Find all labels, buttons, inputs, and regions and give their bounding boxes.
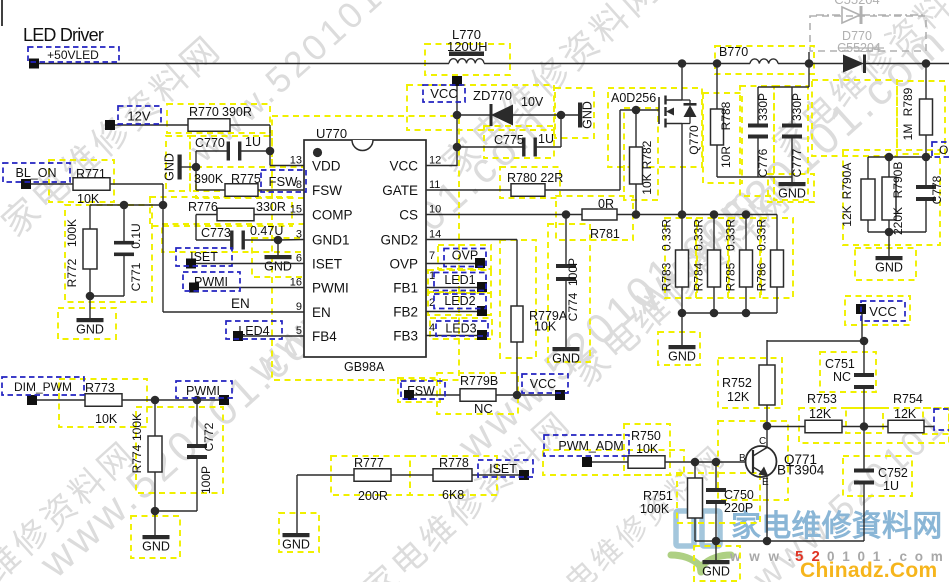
svg-text:LED Driver: LED Driver xyxy=(23,25,104,45)
svg-text:1U: 1U xyxy=(245,135,261,149)
svg-text:VCC: VCC xyxy=(530,377,556,391)
svg-text:10K: 10K xyxy=(77,192,100,206)
svg-text:R776: R776 xyxy=(188,200,218,214)
svg-text:R750: R750 xyxy=(631,429,661,443)
svg-text:GND: GND xyxy=(581,101,595,129)
svg-text:R790B: R790B xyxy=(891,162,905,199)
svg-text:GND1: GND1 xyxy=(312,233,350,248)
svg-text:0.33R: 0.33R xyxy=(692,219,706,251)
svg-text:1U: 1U xyxy=(538,132,554,146)
svg-text:390R: 390R xyxy=(222,105,252,119)
svg-text:GND: GND xyxy=(702,565,730,579)
svg-text:E: E xyxy=(762,477,769,488)
svg-text:7: 7 xyxy=(429,250,435,262)
svg-text:R751: R751 xyxy=(643,489,673,503)
svg-text:VCC: VCC xyxy=(869,304,896,319)
svg-text:GND2: GND2 xyxy=(380,233,418,248)
svg-text:GND: GND xyxy=(875,261,903,275)
svg-text:C752: C752 xyxy=(878,466,908,480)
svg-text:R778: R778 xyxy=(439,456,469,470)
svg-text:R779B: R779B xyxy=(460,374,498,388)
svg-text:0R: 0R xyxy=(598,197,614,211)
svg-text:3: 3 xyxy=(296,229,302,241)
svg-text:R783: R783 xyxy=(660,262,674,291)
svg-text:220K: 220K xyxy=(891,207,905,235)
svg-text:家电维修資料网: 家电维修資料网 xyxy=(731,510,942,543)
svg-text:100K: 100K xyxy=(640,502,670,516)
svg-text:A0D256: A0D256 xyxy=(611,91,656,105)
svg-text:10K: 10K xyxy=(95,412,118,426)
svg-text:B770: B770 xyxy=(719,45,748,59)
svg-text:GND: GND xyxy=(282,538,310,552)
svg-text:100K: 100K xyxy=(65,219,79,247)
svg-text:12K: 12K xyxy=(894,407,917,421)
svg-text:GND: GND xyxy=(76,323,104,337)
svg-text:330P: 330P xyxy=(790,93,804,121)
svg-text:COMP: COMP xyxy=(312,208,353,223)
svg-text:C774: C774 xyxy=(566,292,580,321)
svg-text:PWMI: PWMI xyxy=(194,275,228,289)
svg-text:DIM_PWM: DIM_PWM xyxy=(14,380,72,394)
svg-text:10K: 10K xyxy=(640,173,654,194)
svg-text:330R: 330R xyxy=(256,200,286,214)
svg-text:LED1: LED1 xyxy=(444,273,475,287)
svg-text:16: 16 xyxy=(290,277,302,289)
svg-text:10: 10 xyxy=(429,204,441,216)
svg-text:GND: GND xyxy=(142,540,170,554)
svg-text:R773: R773 xyxy=(85,381,115,395)
svg-text:O: O xyxy=(939,143,948,157)
svg-text:FSW: FSW xyxy=(269,174,299,189)
svg-text:0.33R: 0.33R xyxy=(724,219,738,251)
svg-text:R790A: R790A xyxy=(840,163,854,200)
svg-text:FB1: FB1 xyxy=(393,281,418,296)
svg-text:6: 6 xyxy=(296,253,302,265)
svg-text:ISET: ISET xyxy=(190,250,218,264)
svg-text:9: 9 xyxy=(296,301,302,313)
svg-text:C778: C778 xyxy=(930,175,944,204)
svg-text:0.33R: 0.33R xyxy=(660,219,674,251)
svg-text:C55204: C55204 xyxy=(834,0,880,7)
svg-text:NC: NC xyxy=(474,401,493,416)
svg-text:FB2: FB2 xyxy=(393,305,418,320)
svg-text:13: 13 xyxy=(290,155,302,167)
svg-text:OVP: OVP xyxy=(452,249,478,263)
svg-text:10K: 10K xyxy=(636,442,659,456)
svg-text:220P: 220P xyxy=(724,501,753,515)
svg-text:200R: 200R xyxy=(358,489,388,503)
svg-text:C773: C773 xyxy=(201,226,231,240)
svg-text:GND: GND xyxy=(778,187,806,201)
svg-text:PWM_ADM: PWM_ADM xyxy=(558,439,623,453)
svg-text:12K: 12K xyxy=(809,407,832,421)
svg-text:VDD: VDD xyxy=(312,159,341,174)
svg-text:10V: 10V xyxy=(521,95,544,109)
svg-text:100K: 100K xyxy=(130,413,144,441)
svg-text:LED4: LED4 xyxy=(238,324,269,338)
svg-text:12V: 12V xyxy=(127,109,150,124)
svg-text:Q770: Q770 xyxy=(687,125,701,155)
svg-text:LED3: LED3 xyxy=(445,322,476,336)
svg-text:11: 11 xyxy=(429,179,440,191)
svg-text:R753: R753 xyxy=(807,392,837,406)
svg-text:U770: U770 xyxy=(316,126,347,141)
svg-text:5: 5 xyxy=(296,325,302,337)
svg-text:R789: R789 xyxy=(901,87,915,116)
svg-text:R784: R784 xyxy=(692,262,706,291)
svg-text:390K: 390K xyxy=(194,172,224,186)
svg-text:120UH: 120UH xyxy=(447,39,487,54)
svg-text:R780 22R: R780 22R xyxy=(507,171,563,185)
svg-text:VCC: VCC xyxy=(389,159,418,174)
svg-text:R775: R775 xyxy=(231,172,261,186)
svg-text:10K: 10K xyxy=(534,320,557,334)
svg-text:15: 15 xyxy=(290,204,302,216)
svg-text:ISET: ISET xyxy=(489,462,517,476)
svg-text:OVP: OVP xyxy=(389,257,418,272)
svg-text:PWMI: PWMI xyxy=(312,281,349,296)
svg-text:0.47U: 0.47U xyxy=(250,224,283,238)
svg-text:1U: 1U xyxy=(883,479,899,493)
svg-text:+50VLED: +50VLED xyxy=(47,48,99,62)
svg-text:R782: R782 xyxy=(640,140,654,169)
svg-text:4: 4 xyxy=(429,322,435,334)
svg-text:CS: CS xyxy=(399,208,418,223)
svg-text:12: 12 xyxy=(429,155,441,167)
svg-text:GND: GND xyxy=(552,352,580,366)
svg-text:BT3904: BT3904 xyxy=(777,463,825,478)
svg-text:12K: 12K xyxy=(727,390,750,404)
svg-text:LED2: LED2 xyxy=(444,294,475,308)
svg-text:C770: C770 xyxy=(195,136,225,150)
svg-text:R785: R785 xyxy=(724,262,738,291)
svg-text:C: C xyxy=(759,436,766,447)
svg-text:GATE: GATE xyxy=(382,183,418,198)
svg-text:R786: R786 xyxy=(755,262,769,291)
svg-text:0.33R: 0.33R xyxy=(755,219,769,251)
svg-text:C751: C751 xyxy=(825,357,855,371)
svg-text:330P: 330P xyxy=(756,93,770,121)
svg-text:GND: GND xyxy=(264,260,292,274)
svg-text:C772: C772 xyxy=(202,422,216,451)
svg-text:ISET: ISET xyxy=(312,257,342,272)
svg-text:C775: C775 xyxy=(494,133,524,147)
svg-text:FB4: FB4 xyxy=(312,329,337,344)
svg-text:0.1U: 0.1U xyxy=(129,223,143,248)
svg-text:GB98A: GB98A xyxy=(344,360,385,374)
svg-text:VCC: VCC xyxy=(430,86,457,101)
svg-text:14: 14 xyxy=(429,229,441,241)
svg-text:R754: R754 xyxy=(893,392,923,406)
svg-text:10R: 10R xyxy=(719,146,733,168)
svg-text:1M: 1M xyxy=(901,124,915,141)
svg-text:BL_ON: BL_ON xyxy=(16,166,57,180)
svg-text:C771: C771 xyxy=(129,262,143,291)
svg-text:12K: 12K xyxy=(840,205,854,226)
svg-text:FB3: FB3 xyxy=(393,329,418,344)
svg-text:R772: R772 xyxy=(65,258,79,287)
svg-text:ZD770: ZD770 xyxy=(473,88,512,103)
svg-text:R770: R770 xyxy=(189,105,219,119)
svg-text:C776: C776 xyxy=(756,148,770,177)
svg-text:C750: C750 xyxy=(724,488,754,502)
svg-text:R774: R774 xyxy=(130,444,144,473)
svg-text:6K8: 6K8 xyxy=(442,488,464,502)
svg-text:w w w .: w w w . xyxy=(729,549,794,564)
svg-text:EN: EN xyxy=(231,296,250,311)
svg-text:PWMI: PWMI xyxy=(186,384,220,398)
svg-text:GND: GND xyxy=(668,350,696,364)
svg-text:C777: C777 xyxy=(790,148,804,177)
svg-text:Chinadz.Com: Chinadz.Com xyxy=(800,559,937,582)
svg-text:NC: NC xyxy=(833,370,851,384)
svg-text:GND: GND xyxy=(163,153,177,181)
svg-text:B: B xyxy=(739,453,746,464)
svg-text:100P: 100P xyxy=(199,466,213,494)
svg-text:FSW: FSW xyxy=(407,384,435,398)
svg-text:R771: R771 xyxy=(76,167,106,181)
svg-text:R788: R788 xyxy=(719,101,733,130)
svg-text:EN: EN xyxy=(312,305,331,320)
svg-text:100P: 100P xyxy=(566,258,580,286)
svg-text:R752: R752 xyxy=(722,376,752,390)
svg-text:FSW: FSW xyxy=(312,183,342,198)
svg-text:R781: R781 xyxy=(590,227,620,241)
svg-text:R777: R777 xyxy=(354,456,384,470)
